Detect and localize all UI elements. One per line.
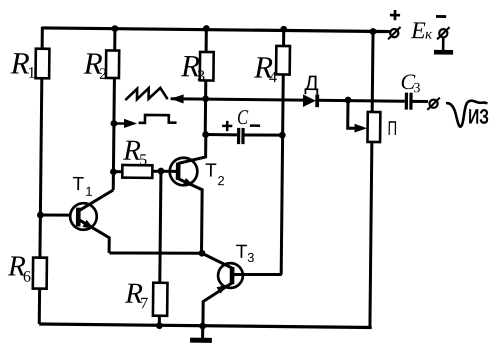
T1 collector lead <box>79 190 114 212</box>
plus sign at Ek <box>390 14 400 17</box>
capacitor C right plate <box>241 128 244 144</box>
diode D <box>303 94 316 107</box>
diode D cathode bar <box>315 95 319 108</box>
T1 emitter lead <box>78 219 109 253</box>
T2 emitter lead <box>177 179 202 254</box>
wire T1 emitter to T2 emitter junction <box>109 252 202 254</box>
minus sign at Ek <box>436 15 446 18</box>
resistor R4 <box>276 46 290 75</box>
capacitor C3 right plate <box>409 93 412 110</box>
svg-text:3: 3 <box>247 250 254 265</box>
wire R5 right lead to T2 base <box>152 170 176 173</box>
svg-text:к: к <box>425 27 433 43</box>
capacitor C left plate <box>237 128 240 144</box>
minus sign at capacitor C <box>250 124 260 127</box>
node R5/R7/T2 base <box>158 168 165 175</box>
node R3 / sawtooth-diode line <box>202 95 209 102</box>
svg-text:Т: Т <box>72 174 84 195</box>
wire sawtooth-output line to diode anode <box>171 99 303 100</box>
wire bottom rail <box>39 324 371 327</box>
T3 emitter lead <box>203 283 232 327</box>
svg-text:1: 1 <box>85 184 92 199</box>
sawtooth waveform symbol <box>125 88 167 101</box>
terminal Ek plus <box>390 29 398 37</box>
wire R3 branch vertical <box>205 29 206 135</box>
resistor R6 <box>33 258 47 289</box>
T1 emitter arrow (npn) <box>82 220 94 229</box>
wire pulse waveform tap <box>114 122 124 125</box>
svg-text:6: 6 <box>23 269 31 286</box>
plus sign at capacitor C <box>222 125 232 128</box>
T3 base bar <box>230 267 235 284</box>
node diode cathode / C3 / wiper <box>345 97 352 104</box>
node top rail / R4 <box>280 26 287 33</box>
resistor R2 <box>106 50 119 78</box>
T2 base bar <box>176 163 181 180</box>
wire R2 branch vertical <box>113 29 115 190</box>
wire R4 branch vertical down to T3 base <box>281 29 284 274</box>
arrow pulse tap pointing right <box>124 119 137 128</box>
wire T1 base lead <box>40 213 69 217</box>
capacitor C3 left plate <box>405 93 408 110</box>
transistor T3 <box>218 263 243 288</box>
svg-text:1: 1 <box>27 65 35 82</box>
wire R5 left lead <box>113 170 122 173</box>
terminal Ek minus <box>439 29 447 37</box>
transistor T1 <box>70 203 97 230</box>
wire C3 to output terminal <box>412 100 428 103</box>
svg-text:C: C <box>237 105 249 129</box>
svg-text:3: 3 <box>197 68 205 85</box>
svg-text:ИЗ: ИЗ <box>468 105 489 128</box>
node R3 / capacitor C / T2 collector <box>202 131 209 138</box>
resistor R7 <box>153 283 168 316</box>
wire R7 branch vertical <box>159 171 161 326</box>
potentiometer P body <box>367 112 380 142</box>
svg-text:Д: Д <box>304 72 318 95</box>
square pulse waveform symbol <box>139 115 177 123</box>
svg-text:3: 3 <box>413 81 420 96</box>
ground bar at Ek minus <box>434 50 453 55</box>
resistor R5 <box>122 165 152 178</box>
wire potentiometer wiper tap <box>348 100 364 128</box>
node capacitor C / R4 <box>279 132 286 139</box>
svg-text:2: 2 <box>99 66 107 83</box>
svg-text:П: П <box>387 118 397 140</box>
node top rail / R3 <box>203 25 210 32</box>
ground lead below T3 emitter <box>201 326 204 338</box>
T2 emitter arrow (npn) <box>183 178 195 186</box>
node top rail / right vertical <box>370 28 377 35</box>
wire T2 collector node to capacitor C <box>206 133 237 136</box>
ground lead at Ek minus <box>442 38 445 51</box>
wire right vertical (Ek+ to P to bottom rail) <box>370 31 373 327</box>
ground bar below T3 emitter <box>190 338 212 343</box>
svg-text:Т: Т <box>236 242 248 263</box>
T3 collector lead <box>202 253 232 268</box>
arrow wiper pointing at P <box>354 124 367 133</box>
svg-text:4: 4 <box>269 69 277 86</box>
transistor T2 <box>170 158 198 186</box>
arrow sawtooth output pointing left <box>171 94 184 103</box>
output pulse waveform symbol near IZ <box>446 100 488 127</box>
node left rail / T1 base <box>37 212 44 219</box>
node bottom rail / R7 <box>156 322 163 329</box>
resistor R3 <box>200 52 214 81</box>
svg-text:5: 5 <box>139 152 147 169</box>
T2 collector lead <box>178 134 206 163</box>
svg-text:7: 7 <box>140 295 148 312</box>
terminal output <box>429 100 437 108</box>
node T1,T2 emitters / T3 collector <box>199 250 206 257</box>
svg-text:E: E <box>410 18 426 44</box>
svg-text:2: 2 <box>217 173 224 188</box>
wire T3 base lead <box>233 274 282 275</box>
wire capacitor C to R4 node <box>244 133 282 137</box>
wire top supply rail <box>42 28 390 32</box>
svg-text:Т: Т <box>205 160 217 181</box>
node pulse waveform tap <box>111 120 118 127</box>
node R2/R5/T1 collector <box>110 168 117 175</box>
node top rail / R2 <box>112 25 119 32</box>
node bottom rail / T3 emitter ground <box>199 323 206 330</box>
wire left rail <box>39 27 42 324</box>
wire diode cathode to C3 <box>315 99 404 103</box>
T1 base bar <box>76 208 81 227</box>
resistor R1 <box>36 49 50 79</box>
T3 emitter arrow (pnp, pointing to base bar) <box>216 285 227 294</box>
